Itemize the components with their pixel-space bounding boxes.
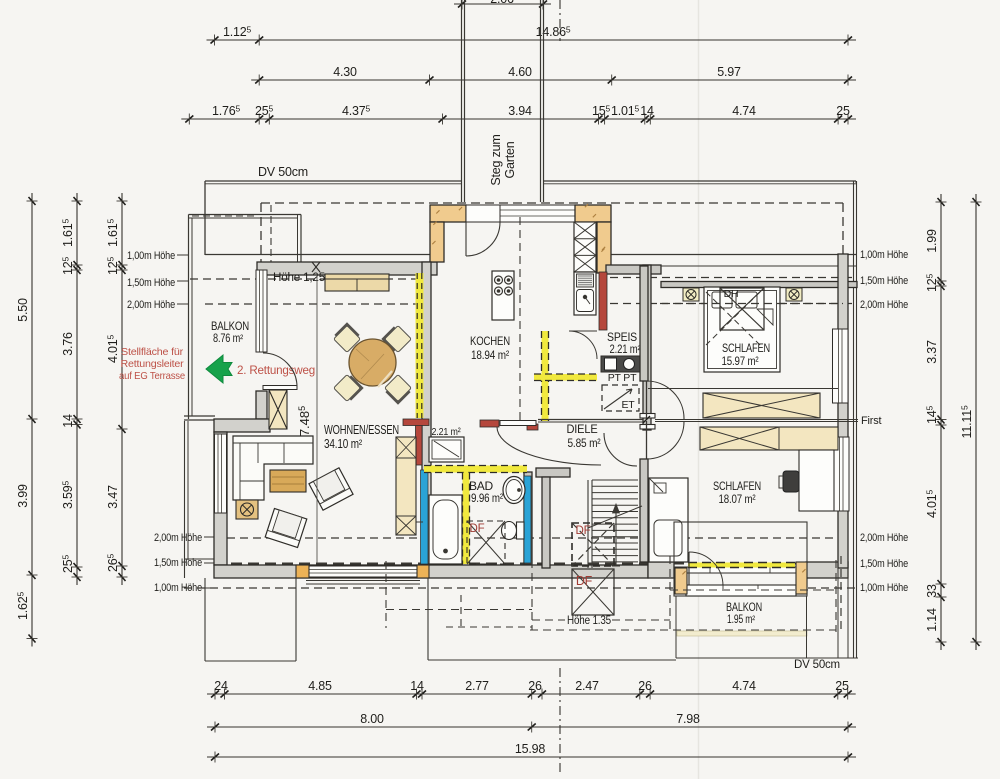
NW corner wall horizontal [214, 419, 270, 432]
dashed 1.50m top left [190, 278, 428, 280]
kitchen section dashed line [519, 217, 521, 420]
svg-text:26: 26 [528, 679, 542, 693]
svg-text:26: 26 [638, 679, 652, 693]
svg-text:1,50m Höhe: 1,50m Höhe [860, 275, 908, 287]
balcony bottom edge [184, 415, 215, 417]
loggia door leaf+arc [688, 552, 690, 586]
svg-text:25: 25 [835, 679, 849, 693]
svg-text:5.50: 5.50 [16, 298, 30, 322]
loggia yellow lintel [688, 563, 795, 568]
roof overhang left vertical [204, 181, 206, 255]
east lower overhang lines [837, 568, 839, 658]
dimension col A left: 5.50 3.99 1.62_5 [31, 193, 33, 647]
steg rails [461, 0, 463, 202]
east wall window 2 [833, 437, 849, 511]
terrace below left [204, 578, 206, 661]
armchair 2 [309, 468, 353, 510]
speis east wall [643, 265, 651, 430]
balcony door arc [263, 353, 297, 387]
stairs cut line [588, 506, 642, 528]
svg-text:3.94: 3.94 [508, 104, 532, 118]
coffee table [270, 470, 306, 492]
dining table [349, 339, 396, 386]
svg-text:DF: DF [576, 574, 593, 588]
balcony door leaf [263, 386, 297, 390]
dashed 2.00m across bath [405, 521, 424, 523]
dimension col B left [76, 193, 78, 585]
balcony top-left outline [189, 214, 302, 216]
kitchen sink unit [574, 272, 596, 315]
nightstand right [786, 288, 802, 301]
svg-text:4.30: 4.30 [333, 65, 357, 79]
stairs treads [587, 480, 589, 568]
svg-text:18.07 m²: 18.07 m² [719, 492, 756, 506]
svg-text:3.76: 3.76 [61, 332, 75, 356]
dimension row top partial [454, 3, 551, 5]
DF roof window 2 [572, 569, 614, 615]
window sill lines below [306, 580, 420, 582]
blue highlight bath east [524, 476, 531, 563]
dashed roof line right lower [840, 556, 842, 632]
svg-text:SPEIS: SPEIS [607, 332, 637, 344]
svg-text:2.77: 2.77 [465, 679, 489, 693]
svg-text:2. Rettungsweg: 2. Rettungsweg [237, 363, 315, 377]
center wall lower [640, 459, 648, 562]
dashed 2.00m bottom [214, 537, 845, 539]
red highlight wall shower west [416, 424, 423, 465]
south wall east section [806, 562, 848, 578]
bedroom1 door leaf+arc [646, 381, 648, 419]
svg-text:1.95 m²: 1.95 m² [727, 614, 755, 626]
dimension row 2 top: 4.30 4.60 5.97 [251, 79, 856, 81]
east wall window 1 [833, 329, 849, 403]
bedroom2 door leaf+arc [646, 421, 648, 459]
terrace below right [427, 578, 429, 660]
yellow highlight wall living-kitchen [416, 273, 424, 418]
svg-text:Garten: Garten [503, 141, 517, 178]
dashed 1.50m top right [610, 277, 856, 279]
red pier diele [480, 420, 499, 427]
roof overhang top edge [205, 180, 462, 182]
svg-text:14: 14 [640, 104, 654, 118]
stairwell left wall [542, 477, 550, 568]
shower/chimney bedroom2 west [649, 478, 688, 562]
dashed 1.00m bottom [184, 587, 858, 589]
lower-left overhang edge [184, 421, 186, 578]
wardrobe east living [396, 437, 416, 535]
svg-text:24: 24 [214, 679, 228, 693]
stairs up arrow [615, 510, 617, 566]
kitchen entry door arc [466, 222, 500, 256]
svg-text:2,00m Höhe: 2,00m Höhe [154, 532, 202, 544]
bedroom1 north wall line [661, 265, 857, 267]
kitchen tall cabinet X3 [574, 222, 596, 272]
west wall stub [256, 391, 267, 419]
svg-text:15.97 m²: 15.97 m² [722, 354, 759, 368]
svg-text:DV 50cm: DV 50cm [794, 659, 840, 671]
roof 0.5m dashed top [261, 202, 843, 204]
svg-text:DF: DF [576, 525, 591, 537]
red bit diele right [527, 424, 538, 430]
svg-text:8.76 m²: 8.76 m² [213, 333, 243, 345]
svg-text:4.74: 4.74 [732, 679, 756, 693]
yellow wall bath inner vertical [463, 473, 470, 565]
yellow wall bath north [424, 466, 527, 473]
blue highlight wall bath west [421, 470, 429, 564]
svg-text:3.99: 3.99 [16, 484, 30, 508]
thin divider line living [316, 273, 318, 563]
section line bottom [559, 668, 561, 776]
svg-text:Steg zum: Steg zum [489, 134, 503, 185]
svg-text:25: 25 [836, 104, 850, 118]
svg-text:First: First [861, 415, 882, 427]
svg-text:DV 50cm: DV 50cm [258, 165, 308, 179]
ET attic ladder dashed box [602, 385, 639, 411]
loggia balcony slab [686, 585, 796, 596]
svg-text:2,00m Höhe: 2,00m Höhe [127, 299, 175, 311]
svg-text:Rettungsleiter: Rettungsleiter [121, 358, 185, 370]
kitchen north wall wood left L [430, 205, 466, 222]
washbasin [503, 477, 525, 504]
escape arrow green [206, 355, 232, 383]
dimension row 3 top [181, 118, 856, 120]
west wall window upper [256, 270, 267, 352]
kitchen north glazing [500, 205, 575, 222]
corner cabinet with X [269, 390, 287, 429]
dimension row bottom 3: 15.98 [207, 756, 856, 758]
washer dryer unit [601, 356, 641, 372]
desk [799, 450, 834, 511]
west wall window [215, 434, 227, 513]
dimension row bottom 1 [207, 693, 856, 695]
svg-text:4.85: 4.85 [308, 679, 332, 693]
svg-text:8.00: 8.00 [360, 712, 384, 726]
svg-text:KOCHEN: KOCHEN [470, 334, 510, 348]
dining chairs [333, 324, 361, 352]
stair door arc [604, 433, 637, 466]
wall cross mark [312, 262, 320, 272]
loggia recess outline [674, 522, 807, 596]
svg-text:1.99: 1.99 [925, 229, 939, 253]
roof overhang right verticals [853, 181, 855, 658]
pale roof band below loggia [677, 631, 807, 636]
dashed attic lines below [385, 561, 387, 628]
section line top [559, 0, 561, 41]
svg-text:BALKON: BALKON [726, 602, 762, 614]
svg-text:4.74: 4.74 [732, 104, 756, 118]
svg-text:34.10 m²: 34.10 m² [324, 437, 362, 451]
bedroom divider line [648, 388, 838, 390]
svg-text:1,00m Höhe: 1,00m Höhe [860, 249, 908, 261]
ridge line First [655, 419, 858, 421]
south wall west section [214, 565, 648, 578]
svg-text:1,00m Höhe: 1,00m Höhe [154, 582, 202, 594]
scan artifact line [698, 0, 700, 779]
svg-text:Höhe 1.35: Höhe 1.35 [567, 613, 611, 627]
svg-text:15.98: 15.98 [515, 742, 546, 756]
dimension col E right: 11.11_5 [975, 194, 977, 650]
dimension row bottom 2: 8.00 7.98 [207, 726, 856, 728]
wardrobe row bedroom1 [703, 393, 820, 418]
armchair 1 [265, 508, 307, 547]
diele wall to bedrooms thin [538, 419, 643, 421]
svg-text:1,50m Höhe: 1,50m Höhe [127, 277, 175, 289]
roof line right 1.00m solid [610, 254, 857, 256]
bedroom1 north knee wall [661, 282, 857, 288]
wardrobe row bedroom2 [700, 427, 838, 450]
svg-text:WOHNEN/ESSEN: WOHNEN/ESSEN [324, 423, 399, 437]
shower tray 2.21 [429, 437, 464, 462]
center wall upper [640, 266, 648, 381]
svg-text:2.21 m²: 2.21 m² [610, 344, 641, 356]
dimension row 1 top: 1.12_5 / 14.86_5 [207, 39, 857, 41]
bed bedroom1 [704, 287, 780, 372]
east exterior wall [838, 254, 848, 568]
kitchen entry door opening [466, 205, 500, 222]
WC [517, 522, 525, 539]
desk chair [783, 471, 799, 492]
svg-text:5.97: 5.97 [717, 65, 741, 79]
roof line over living 1.00m solid [205, 254, 437, 256]
svg-text:1,50m Höhe: 1,50m Höhe [860, 558, 908, 570]
svg-text:SCHLAFEN: SCHLAFEN [722, 341, 770, 355]
side table with lamp [236, 500, 258, 519]
bath east wall gray [524, 472, 532, 564]
balcony dashed interior line [192, 215, 257, 217]
svg-text:DIELE: DIELE [567, 422, 598, 436]
loggia post right [796, 562, 807, 594]
yellow wall nook-diele horizontal [534, 374, 597, 381]
shower room red/walls top [403, 419, 429, 426]
svg-text:DH: DH [724, 288, 739, 300]
svg-text:Stellfläche für: Stellfläche für [121, 346, 184, 358]
west exterior wall [214, 432, 227, 565]
svg-text:2,00m Höhe: 2,00m Höhe [860, 299, 908, 311]
svg-text:DF: DF [470, 523, 485, 535]
orange jamb left [296, 565, 309, 578]
svg-text:5.85 m²: 5.85 m² [568, 436, 601, 450]
stove [492, 271, 514, 320]
svg-text:3.47: 3.47 [106, 485, 120, 509]
svg-text:7.98: 7.98 [676, 712, 700, 726]
dashed 2.00m over bed [660, 303, 843, 305]
kitchen north wall wood right [575, 205, 611, 222]
stairwell top wall [536, 468, 570, 477]
tick on ridge [643, 416, 650, 423]
svg-text:18.94 m²: 18.94 m² [471, 348, 509, 362]
speis door arc [569, 331, 597, 359]
svg-text:1,00m Höhe: 1,00m Höhe [127, 250, 175, 262]
dashed 1.50m bottom heavy [214, 563, 845, 565]
svg-text:14: 14 [61, 414, 75, 428]
svg-text:1.14: 1.14 [925, 608, 939, 632]
DF roof window 1 over stairs [572, 523, 614, 566]
svg-text:11.115: 11.115 [960, 405, 975, 438]
svg-text:14: 14 [410, 679, 424, 693]
svg-text:SCHLAFEN: SCHLAFEN [713, 479, 761, 493]
svg-text:2,00m Höhe: 2,00m Höhe [860, 532, 908, 544]
sofa L-shape [233, 436, 313, 500]
orange jamb right [417, 565, 429, 578]
diele door arc [497, 427, 601, 465]
dimension col C left [121, 193, 123, 585]
dashed 2.00m top left [205, 303, 428, 305]
nightstand left [683, 288, 699, 301]
svg-text:BALKON: BALKON [211, 321, 249, 333]
svg-text:9.96 m²: 9.96 m² [471, 491, 503, 505]
loggia post left [675, 568, 687, 594]
sideboard below wall [325, 274, 389, 291]
living room north wall Hoehe 1.25 [257, 262, 437, 275]
dashed 2.00m top right [610, 303, 856, 305]
bathtub [429, 495, 462, 564]
south wall stair section [648, 562, 674, 578]
svg-text:3.37: 3.37 [925, 340, 939, 364]
svg-text:2.47: 2.47 [575, 679, 599, 693]
red wall kitchen-speis [599, 272, 607, 330]
loggia window line [674, 567, 806, 573]
svg-text:PT PT: PT PT [608, 372, 637, 384]
south window living [309, 566, 417, 577]
living-kitchen wall [422, 262, 431, 564]
door frame jamb at ridge [640, 414, 655, 419]
speis north wall [606, 265, 661, 274]
svg-text:ET: ET [621, 399, 635, 411]
diele door leaf [500, 421, 536, 426]
svg-text:1,00m Höhe: 1,00m Höhe [860, 582, 908, 594]
yellow wall kitchen-diele vertical [542, 331, 549, 421]
svg-text:33: 33 [925, 584, 939, 598]
dimension col D right [940, 194, 942, 650]
svg-text:4.60: 4.60 [508, 65, 532, 79]
DF roof window bath [467, 521, 505, 564]
svg-text:auf EG Terrasse: auf EG Terrasse [119, 370, 185, 382]
svg-text:2.21 m²: 2.21 m² [432, 426, 462, 438]
svg-text:2.06: 2.06 [490, 0, 514, 6]
